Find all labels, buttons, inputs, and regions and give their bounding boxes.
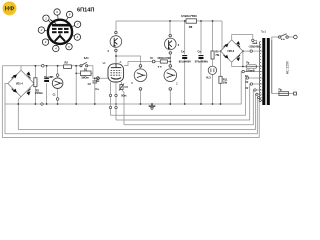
wire transformer primary top xyxy=(272,37,279,40)
svg-text:~220(240)V: ~220(240)V xyxy=(248,46,261,49)
svg-text:6П14П: 6П14П xyxy=(77,8,94,14)
svg-text:2: 2 xyxy=(40,28,43,32)
junction dots PSU rail xyxy=(35,65,37,67)
primary winding line xyxy=(271,40,273,94)
wire tube pin R6 to bus125 xyxy=(122,82,125,125)
wire R3 column xyxy=(34,66,36,104)
wire bridge1 B down xyxy=(18,97,21,130)
junction dot input node xyxy=(94,77,96,79)
wire tube top pin xyxy=(115,56,117,64)
svg-text:ВыпВП: ВыпВП xyxy=(44,76,53,79)
wire tube pin to bus115 xyxy=(110,82,112,115)
wire bus 133 xyxy=(5,97,262,133)
wire R1 row xyxy=(76,72,93,74)
wire R11 to bus xyxy=(220,83,222,104)
svg-text:НФ: НФ xyxy=(5,7,14,13)
svg-text:2: 2 xyxy=(108,49,110,53)
transistor VT (circle) xyxy=(52,78,63,89)
wire transformer primary bottom xyxy=(272,93,279,95)
neon lamp VL3 xyxy=(208,66,216,74)
wire C2 below node xyxy=(94,78,96,104)
socket pin 8 xyxy=(66,11,72,20)
wire C6 column xyxy=(184,21,186,104)
junction dots switch S1 xyxy=(281,39,282,40)
svg-text:2: 2 xyxy=(176,82,178,86)
tube VL1 xyxy=(108,64,124,82)
connector on R5 line xyxy=(152,60,155,63)
svg-text:6V: 6V xyxy=(246,82,249,84)
resistor R2 xyxy=(64,61,72,69)
wire top rail xyxy=(116,20,222,22)
socket cathode stub xyxy=(59,33,61,35)
socket heater caret xyxy=(55,36,65,41)
wire R5 to VL2 column xyxy=(155,61,160,63)
svg-text:Сн: Сн xyxy=(198,51,202,54)
fuse Pr1 xyxy=(279,88,289,96)
connector on bus xyxy=(41,103,43,105)
wire bridge2 R to tap xyxy=(243,51,250,66)
tube socket diagram xyxy=(48,20,72,44)
svg-text:Пр: Пр xyxy=(246,63,250,65)
winding tap stub wires xyxy=(252,40,262,51)
wire PSU rail xyxy=(21,65,76,67)
lamp VL2 xyxy=(165,34,177,54)
capacitor C7 electrolytic xyxy=(195,51,208,64)
wire bridge2 T to transformer xyxy=(232,35,253,40)
ground xyxy=(149,104,156,110)
logo xyxy=(3,2,17,16)
resistor R6 variable xyxy=(119,84,124,91)
junction dot R5 node xyxy=(169,61,171,63)
wire main bus 104 xyxy=(5,72,262,104)
wire rail drop to lamp VL4 xyxy=(115,21,117,31)
terminal circles under tube xyxy=(109,94,117,109)
wire bus 115 xyxy=(111,78,263,115)
svg-text:570x400Wt: 570x400Wt xyxy=(195,60,208,63)
bridge rectifier VD1-4 xyxy=(8,70,34,97)
junction dots R5 under xyxy=(158,66,159,67)
resistor R11 xyxy=(219,76,228,84)
switch SA1 xyxy=(80,62,88,67)
wire jack X2 column xyxy=(169,67,171,69)
wire VL4 to node xyxy=(115,52,117,64)
wire C7 column xyxy=(200,21,202,104)
wire jack X1 column xyxy=(140,67,142,69)
svg-text:80,0x400V: 80,0x400V xyxy=(179,60,191,63)
svg-text:6V~: 6V~ xyxy=(245,76,250,78)
wire switch to plug xyxy=(288,36,293,38)
svg-text:AC 220V: AC 220V xyxy=(286,60,290,74)
secondary tap terminals xyxy=(242,39,261,101)
svg-text:R8: R8 xyxy=(189,25,193,29)
svg-text:VL: VL xyxy=(103,61,107,65)
wire bus 120 xyxy=(116,84,262,120)
transformer Tp1 xyxy=(261,30,270,106)
socket key diagonal xyxy=(50,20,56,24)
capacitor C3 electrolytic xyxy=(44,79,49,82)
wire rail end down to bridge2 L xyxy=(221,21,223,51)
resistor R9 xyxy=(211,51,220,59)
svg-text:220мкФ: 220мкФ xyxy=(246,69,255,72)
svg-text:9: 9 xyxy=(131,81,133,85)
switch S1 xyxy=(279,34,289,38)
wire tube pin to bus120 xyxy=(115,82,117,120)
jack X1 (circle with arrow) xyxy=(134,65,147,91)
resistor R8 xyxy=(181,14,197,29)
wire VT column xyxy=(57,66,59,104)
wire bus 125 xyxy=(124,90,262,125)
wire anode to R5 line xyxy=(124,62,152,66)
svg-text:2: 2 xyxy=(178,43,180,47)
svg-text:C2: C2 xyxy=(88,83,92,86)
input jack X xyxy=(97,77,100,80)
svg-text:SA1: SA1 xyxy=(84,57,89,60)
svg-text:150Om: 150Om xyxy=(35,92,43,95)
resistor R3 xyxy=(34,78,43,95)
bridge rectifier VD5-8 xyxy=(221,40,243,62)
wire R9 neon R10 column xyxy=(212,21,214,104)
svg-text:10k: 10k xyxy=(223,81,228,85)
wire C3 column xyxy=(46,66,48,104)
svg-text:Пр: Пр xyxy=(279,88,283,92)
fuse box 220 xyxy=(246,63,257,73)
socket pin 9 xyxy=(54,9,60,19)
secondary winding line xyxy=(259,42,261,102)
svg-text:Сн: Сн xyxy=(181,51,185,54)
lamp VL4 xyxy=(110,31,122,51)
wire fusebox to core xyxy=(246,66,262,68)
wire node to jack X1 branch xyxy=(116,56,141,65)
svg-text:С1: С1 xyxy=(53,95,57,97)
junction dots tube columns on bus xyxy=(115,103,116,104)
wire rail right end down xyxy=(75,66,77,104)
socket inner grid bars xyxy=(52,28,69,33)
socket inner anode bar xyxy=(52,24,71,27)
socket pin 3 xyxy=(42,39,49,45)
svg-text:R6: R6 xyxy=(125,85,129,89)
svg-text:0,5kOm*5Wt: 0,5kOm*5Wt xyxy=(181,14,197,18)
wire bus 137 xyxy=(2,100,262,137)
capacitor C2 xyxy=(92,81,97,83)
socket pin 1 xyxy=(43,15,51,22)
svg-text:600Om*2Wt: 600Om*2Wt xyxy=(158,57,171,60)
plug top xyxy=(294,35,298,39)
jack X2 (circle with arrow) xyxy=(164,65,177,91)
connector on PSU rail xyxy=(42,65,45,68)
svg-text:VD1-4: VD1-4 xyxy=(16,83,23,86)
transformer core bars xyxy=(262,38,265,105)
junction dots bus104 xyxy=(17,103,19,105)
socket pin 7 xyxy=(72,21,81,27)
plug bottom xyxy=(294,92,297,95)
socket pin 5 xyxy=(66,43,72,50)
svg-text:Сн: Сн xyxy=(95,88,99,91)
wire lamp VL2 drop xyxy=(169,21,171,34)
resistor R5 xyxy=(158,57,171,63)
svg-text:6V: 6V xyxy=(246,88,249,90)
junction dots top rail xyxy=(169,20,171,22)
wire PSU AC lead left xyxy=(2,66,21,138)
terminal above VT xyxy=(56,74,59,77)
wire fuse to plug2 xyxy=(289,93,294,95)
junction dot anode node xyxy=(115,55,117,57)
wire bridge1 L down xyxy=(5,84,8,134)
wire bridge2 B to fuse box xyxy=(232,62,246,66)
junction dot bridge2 L xyxy=(220,50,222,52)
svg-text:75k: 75k xyxy=(215,54,220,57)
socket pin 2 xyxy=(38,27,47,33)
resistor R1 xyxy=(81,68,91,79)
svg-text:Тр1: Тр1 xyxy=(261,30,266,34)
svg-text:8Om: 8Om xyxy=(121,96,126,98)
capacitor C6 electrolytic xyxy=(179,51,191,64)
svg-text:R2: R2 xyxy=(65,61,69,65)
wire switch SA1 row xyxy=(76,66,93,74)
svg-text:50: 50 xyxy=(150,56,154,60)
socket pin 4 xyxy=(53,45,59,52)
wire bus 129 xyxy=(18,94,262,129)
svg-text:VD5-8: VD5-8 xyxy=(227,50,234,53)
wire node to input jack xyxy=(93,73,108,78)
svg-text:VL3: VL3 xyxy=(206,76,211,79)
socket pin 6 xyxy=(73,34,81,40)
wire bridge2 L to R11 xyxy=(220,51,222,76)
svg-text:1MOm: 1MOm xyxy=(81,77,89,80)
svg-text:A: A xyxy=(120,60,122,64)
